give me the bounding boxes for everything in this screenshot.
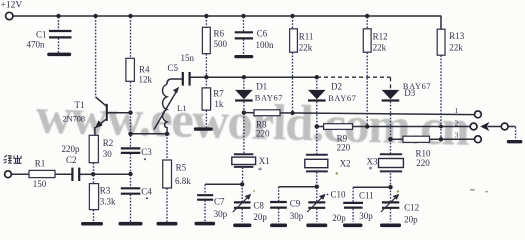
svg-text:2: 2	[455, 118, 459, 127]
svg-text:22k: 22k	[449, 42, 463, 52]
svg-text:C7: C7	[214, 196, 225, 206]
svg-text:R7: R7	[213, 89, 224, 99]
svg-text:C11: C11	[359, 190, 374, 200]
svg-text:22k: 22k	[299, 42, 313, 52]
svg-text:C1: C1	[36, 30, 47, 40]
svg-text:*: *	[369, 165, 373, 174]
svg-text:30p: 30p	[290, 211, 304, 221]
svg-text:C12: C12	[404, 202, 419, 212]
svg-text:R5: R5	[176, 162, 187, 172]
svg-text:R10: R10	[416, 148, 432, 158]
svg-text:C3: C3	[141, 147, 152, 157]
svg-text:L1: L1	[177, 103, 186, 113]
svg-text:R6: R6	[214, 29, 225, 39]
svg-text:3.3k: 3.3k	[100, 197, 116, 207]
svg-text:R11: R11	[299, 32, 314, 42]
svg-text:30: 30	[103, 149, 113, 159]
svg-text:R13: R13	[449, 31, 465, 41]
svg-text:C9: C9	[290, 199, 301, 209]
svg-text:100n: 100n	[256, 40, 275, 50]
svg-text:20p: 20p	[332, 213, 346, 223]
svg-text:30p: 30p	[214, 209, 228, 219]
svg-text:150: 150	[33, 179, 47, 189]
svg-text:BAY67: BAY67	[328, 94, 356, 103]
svg-text:C6: C6	[257, 29, 268, 39]
svg-text:R1: R1	[35, 159, 46, 169]
svg-text:470n: 470n	[27, 40, 46, 50]
svg-text:15n: 15n	[181, 53, 195, 63]
svg-text:6.8k: 6.8k	[175, 176, 191, 186]
svg-text:20p: 20p	[253, 212, 267, 222]
svg-text:C5: C5	[168, 63, 179, 73]
svg-text:30p: 30p	[359, 211, 373, 221]
svg-text:*: *	[258, 166, 262, 175]
svg-text:R2: R2	[103, 138, 114, 148]
svg-text:D1: D1	[256, 81, 267, 91]
svg-text:220: 220	[337, 143, 351, 153]
svg-text:220: 220	[256, 129, 270, 139]
svg-text:X2: X2	[340, 158, 351, 168]
svg-text:D3: D3	[404, 88, 415, 98]
svg-text:T1: T1	[75, 100, 85, 110]
svg-text:20p: 20p	[404, 214, 418, 224]
svg-text:C8: C8	[253, 201, 264, 211]
svg-text:C2: C2	[66, 155, 77, 165]
svg-text:500: 500	[214, 39, 228, 49]
svg-text:22k: 22k	[373, 42, 387, 52]
svg-text:220: 220	[416, 158, 430, 168]
svg-text:220p: 220p	[62, 144, 81, 154]
svg-text:C4: C4	[141, 187, 152, 197]
svg-text:2N708: 2N708	[63, 114, 86, 123]
svg-text:R4: R4	[139, 64, 150, 74]
svg-text:R12: R12	[373, 32, 388, 42]
svg-text:R3: R3	[100, 186, 111, 196]
svg-text:12k: 12k	[139, 75, 153, 85]
svg-text:X1: X1	[259, 156, 270, 166]
svg-text:D2: D2	[331, 81, 342, 91]
svg-text:C10: C10	[331, 190, 347, 200]
svg-text:1k: 1k	[214, 99, 224, 109]
svg-text:BAY67: BAY67	[255, 94, 283, 103]
svg-text:3: 3	[455, 130, 459, 139]
svg-text:+12V: +12V	[1, 0, 23, 10]
svg-text:1: 1	[455, 106, 459, 115]
